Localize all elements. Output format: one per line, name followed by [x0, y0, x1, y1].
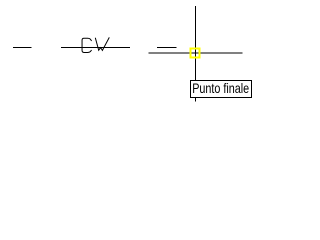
crosshair vertical line [195, 6, 197, 102]
crosshair horizontal line [148, 52, 242, 54]
wire CW line segment [61, 47, 130, 49]
svg-text:Punto finale: Punto finale [192, 80, 249, 96]
endpoint snap marker (yellow square) [191, 49, 200, 58]
letter C of CW linetype [82, 38, 92, 52]
letter W of CW linetype [95, 37, 109, 50]
wire dash segment 2 [157, 47, 176, 49]
tooltip box Punto finale [191, 81, 252, 98]
wire dash segment 1 [13, 47, 32, 49]
